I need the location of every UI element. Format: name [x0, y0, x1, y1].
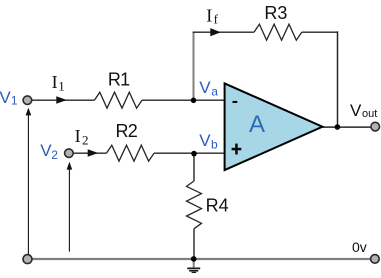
svg-text:V: V: [199, 131, 211, 150]
svg-text:0v: 0v: [352, 239, 367, 255]
svg-text:R1: R1: [108, 70, 130, 90]
svg-text:R2: R2: [116, 121, 138, 141]
svg-text:A: A: [249, 111, 265, 138]
svg-text:1: 1: [11, 94, 18, 108]
svg-text:a: a: [211, 85, 218, 99]
svg-text:V: V: [0, 88, 11, 107]
svg-text:1: 1: [58, 78, 65, 93]
svg-text:out: out: [362, 108, 377, 120]
svg-text:I: I: [75, 126, 81, 146]
svg-text:I: I: [52, 72, 58, 92]
svg-text:f: f: [214, 12, 219, 27]
svg-text:2: 2: [51, 148, 58, 162]
svg-text:V: V: [199, 78, 211, 97]
svg-text:R3: R3: [264, 3, 287, 23]
svg-text:I: I: [206, 5, 212, 25]
svg-text:b: b: [211, 137, 218, 151]
svg-text:R4: R4: [206, 195, 229, 215]
svg-text:V: V: [350, 101, 362, 120]
svg-text:2: 2: [82, 132, 89, 147]
